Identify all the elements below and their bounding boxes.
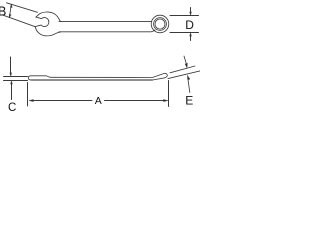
svg-text:A: A (95, 95, 102, 107)
svg-text:D: D (185, 18, 194, 32)
svg-text:B: B (0, 4, 6, 18)
svg-text:C: C (8, 102, 16, 112)
svg-text:E: E (185, 93, 193, 107)
